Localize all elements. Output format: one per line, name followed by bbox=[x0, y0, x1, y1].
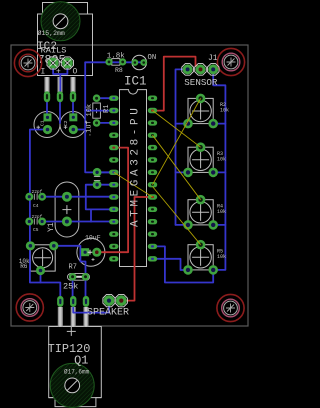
mounting hole top-left bbox=[14, 49, 41, 76]
svg-text:22pf: 22pf bbox=[32, 214, 43, 220]
wire: IC2 pin2 down between capacitors bbox=[59, 97, 61, 124]
IC1 pads left column bbox=[109, 96, 118, 262]
crystal Y1 silk cross bbox=[62, 205, 71, 214]
board outline bbox=[11, 45, 248, 326]
wire: sensor pad1 to left pot rail bbox=[176, 69, 188, 225]
svg-text:Ø15,2mm: Ø15,2mm bbox=[38, 29, 65, 37]
wire: C2 minus to 5V rail junction bbox=[73, 129, 85, 131]
wire: sensor pad3 to right pot rail bbox=[213, 69, 225, 270]
svg-text:1.8k: 1.8k bbox=[107, 53, 126, 61]
R5 pads bbox=[183, 240, 218, 275]
wire: IC2 output pads join (bottom layer) bbox=[53, 63, 67, 97]
IC2 pin pads (3 oval) bbox=[44, 91, 76, 102]
wire: 5V to R8 and LED row bbox=[85, 61, 144, 63]
R4 pads bbox=[183, 195, 218, 230]
IC2 pad I (octagon with cross) bbox=[47, 57, 59, 69]
C2 pads bbox=[69, 113, 78, 134]
potentiometer R2 body bbox=[188, 98, 213, 123]
svg-text:10uF: 10uF bbox=[85, 234, 101, 241]
wire: C4 left pad on GND rail bbox=[28, 196, 31, 198]
svg-text:SENSOR: SENSOR bbox=[184, 77, 218, 88]
wire: R1 top pad to IC1 pin1 bbox=[97, 97, 114, 99]
LED ON body bbox=[132, 55, 147, 70]
R7 pads bbox=[69, 273, 90, 281]
airwire: R5 wiper to IC1 pin bbox=[153, 187, 201, 245]
wire: left rail to R4 bottom-left pad bbox=[176, 224, 189, 226]
R3 pads bbox=[183, 142, 218, 177]
svg-text:Y1: Y1 bbox=[47, 222, 56, 232]
svg-text:Ø17,6mm: Ø17,6mm bbox=[64, 369, 90, 376]
wire: C3 top pad to IC1 pin bbox=[97, 171, 114, 173]
R2 pads bbox=[183, 94, 218, 129]
svg-text:R1: R1 bbox=[103, 105, 111, 113]
wire: R7 left pad to Q1 base bbox=[72, 277, 74, 296]
crystal Y1 body bbox=[55, 182, 79, 237]
svg-text:C5: C5 bbox=[33, 227, 39, 233]
Q1 pads (3 oval) bbox=[57, 296, 89, 307]
Q1 leg pins bbox=[58, 307, 89, 327]
airwire: R3 wiper to IC1 pin bbox=[153, 111, 201, 148]
wire: left rail to R3 bottom-left pad bbox=[176, 171, 189, 173]
wire: R6 wiper to R7 net bbox=[54, 246, 86, 296]
capacitor C10 10uF body bbox=[77, 238, 105, 266]
resistor R8 body bbox=[112, 59, 120, 66]
svg-text:R7: R7 bbox=[69, 264, 77, 272]
C3 pads bbox=[93, 168, 102, 189]
C5 pads (22pf) bbox=[25, 218, 46, 226]
airwire: R4 wiper to IC1 pin bbox=[153, 135, 201, 200]
wire: 5V rail vertical to C3 bbox=[85, 62, 114, 172]
wire: left rail to R2 bottom-left pad bbox=[176, 123, 189, 125]
potentiometer R5 body bbox=[188, 245, 213, 270]
svg-text:O: O bbox=[73, 68, 78, 77]
svg-text:R8: R8 bbox=[115, 67, 123, 74]
svg-text:C4: C4 bbox=[33, 203, 39, 209]
C1 pads bbox=[43, 113, 52, 134]
svg-text:.1uf: .1uf bbox=[86, 120, 94, 137]
label 10uF polarity plus bbox=[92, 258, 95, 261]
IC2 heatsink tab hole (hatched) bbox=[41, 2, 80, 41]
potentiometer R3 body bbox=[188, 147, 213, 172]
IC2 pad O (octagon with cross) bbox=[61, 57, 73, 69]
potentiometer R6 body bbox=[30, 245, 55, 271]
IC2 leg pins bbox=[45, 77, 76, 92]
wire: IC1 pin to speaker right pad (top layer) bbox=[121, 197, 152, 301]
wire: R6 bottom pad stub to GND rail bbox=[40, 271, 42, 283]
C4 pads (22pf) bbox=[25, 193, 46, 201]
resistor R1 body bbox=[93, 103, 101, 118]
svg-text:10k: 10k bbox=[217, 209, 226, 215]
svg-text:J1: J1 bbox=[208, 54, 218, 63]
wire: Q1 emitter to speaker left pad bbox=[73, 306, 109, 313]
svg-text:+: + bbox=[56, 68, 61, 77]
R1 pads bbox=[93, 94, 101, 126]
airwire: IC1 left pin to IC1 right pin bbox=[114, 172, 153, 197]
potentiometer R4 body bbox=[188, 200, 213, 225]
wire: IC1 pin27 to R5 bottom-left bbox=[153, 259, 189, 270]
wire: right rail to R2 bottom-right pad bbox=[213, 123, 225, 125]
svg-text:SPEAKER: SPEAKER bbox=[87, 308, 129, 319]
10uF pads bbox=[81, 248, 101, 257]
svg-text:ATMEGA328-PU: ATMEGA328-PU bbox=[130, 105, 142, 227]
R6 pads bbox=[26, 241, 59, 275]
svg-text:C2: C2 bbox=[63, 120, 69, 126]
capacitor C1 body bbox=[34, 112, 60, 138]
wire: right rail to R4 bottom-right pad bbox=[213, 224, 225, 226]
svg-text:10k: 10k bbox=[217, 156, 226, 162]
wire: crystal top row C4 to Y1 to IC1 bbox=[42, 196, 114, 198]
wire: GND C3 bottom net to IC1 pins bbox=[86, 185, 114, 222]
Q1 heatsink tab hole (hatched) bbox=[50, 363, 94, 407]
sensor header J1 pads bbox=[182, 64, 219, 76]
mounting hole bottom-right bbox=[217, 294, 244, 321]
svg-text:22pf: 22pf bbox=[32, 189, 43, 195]
svg-text:10k: 10k bbox=[220, 108, 229, 114]
label C1 polarity plus bbox=[37, 126, 41, 130]
svg-text:25k: 25k bbox=[63, 281, 78, 291]
svg-text:IC1: IC1 bbox=[124, 75, 147, 89]
wire: IC1 pin to LED and sensor middle pad (top layer) bbox=[153, 57, 201, 111]
svg-text:I: I bbox=[41, 68, 46, 77]
R8 pads bbox=[105, 58, 126, 65]
wire: 10uF plus to IC1 pin (top layer) bbox=[97, 148, 128, 253]
svg-text:Q1: Q1 bbox=[74, 354, 88, 368]
label C2 polarity plus bbox=[64, 126, 68, 130]
mounting hole bottom-left bbox=[16, 294, 43, 321]
speaker pads bbox=[103, 294, 128, 306]
wire: IC1 pin26 loop under R5 to R5 bottom-right bbox=[153, 246, 214, 282]
wire: IC1 pin row1 stub bbox=[85, 110, 114, 112]
wire: IC2 pin3 to C2 plus pad bbox=[72, 97, 74, 118]
svg-text:R6: R6 bbox=[20, 263, 28, 270]
svg-text:10k: 10k bbox=[86, 104, 94, 117]
LED ON pads bbox=[132, 59, 148, 66]
svg-text:ON: ON bbox=[148, 54, 157, 62]
svg-text:10k: 10k bbox=[217, 254, 226, 260]
wire: crystal bottom row C5 to Y1 to IC1 bbox=[42, 221, 114, 223]
trimmer R7 body bbox=[68, 274, 90, 281]
airwire: R2 wiper to IC1 pin bbox=[153, 98, 201, 184]
wire: GND net C1 minus to left rail bbox=[30, 130, 60, 297]
transistor Q1 TIP120 TO-220 body bbox=[49, 327, 102, 407]
wire: R1 bottom pad to IC1 pin bbox=[97, 122, 114, 124]
wire: IC2 pin1 to C1 plus pad bbox=[46, 97, 48, 118]
svg-text:C1: C1 bbox=[40, 120, 46, 126]
wire: right rail to R3 bottom-right pad bbox=[213, 171, 225, 173]
IC1 pads right column bbox=[148, 96, 157, 262]
mounting hole top-right bbox=[217, 48, 244, 75]
IC1 ATMEGA328 DIP-28 body bbox=[120, 90, 147, 267]
voltage regulator IC2 7805 TO-220 body bbox=[38, 3, 93, 76]
capacitor C2 body bbox=[60, 112, 86, 138]
Y1 pads bbox=[62, 192, 72, 227]
